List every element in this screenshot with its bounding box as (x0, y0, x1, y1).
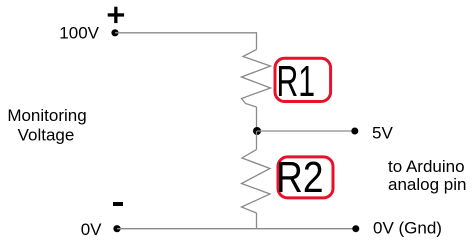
+ terminal marker (108, 7, 124, 23)
node 0V (Gnd) dot (352, 225, 359, 232)
node 100V dot (111, 29, 118, 36)
node 5V dot (351, 128, 358, 135)
node 0V dot (113, 225, 120, 232)
svg-text:0V (Gnd): 0V (Gnd) (373, 219, 442, 238)
wire bottom (0V to Gnd tap) (117, 228, 356, 230)
node junction R1/R2 (253, 127, 261, 135)
svg-text:100V: 100V (59, 24, 99, 43)
wire R2 top stub (256, 131, 258, 150)
wire middle (junction to 5V tap) (257, 130, 355, 132)
wire top (100V node to resistor chain) (115, 33, 257, 50)
- terminal marker (113, 202, 123, 206)
resistor R1 (242, 50, 271, 108)
svg-text:analog pin: analog pin (388, 175, 466, 194)
resistor R2 (242, 150, 271, 214)
svg-text:R1: R1 (277, 58, 316, 106)
svg-text:R2: R2 (276, 154, 324, 202)
svg-text:Monitoring: Monitoring (7, 106, 86, 125)
wire R2 bottom stub (256, 213, 258, 229)
label R1 (275, 58, 331, 106)
svg-text:to Arduino: to Arduino (388, 157, 465, 176)
wire R1 bottom stub (256, 107, 258, 131)
svg-text:0V: 0V (81, 220, 102, 239)
label R2 (276, 154, 333, 202)
svg-text:Voltage: Voltage (18, 126, 75, 145)
svg-text:5V: 5V (372, 123, 393, 142)
